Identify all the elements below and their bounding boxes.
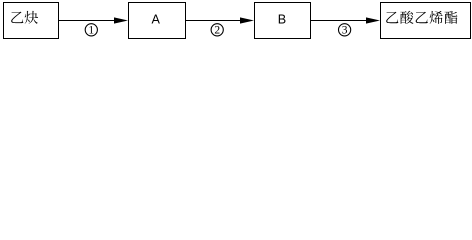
box A	[129, 3, 186, 39]
text 乙酸乙烯酯	[386, 11, 457, 24]
box 乙酸乙烯酯	[381, 3, 471, 39]
arrow 2	[186, 20, 243, 22]
arrow 1	[59, 20, 117, 22]
svg-text:2: 2	[214, 25, 220, 37]
label ②	[211, 24, 223, 37]
text 乙炔	[11, 11, 38, 24]
box 乙炔	[4, 3, 59, 39]
svg-text:3: 3	[342, 25, 348, 37]
box B	[255, 3, 311, 39]
svg-text:1: 1	[88, 25, 94, 37]
arrow 3	[311, 20, 369, 22]
svg-text:B: B	[278, 12, 286, 26]
label ③	[339, 24, 351, 37]
label ①	[85, 24, 97, 37]
svg-text:A: A	[151, 12, 160, 26]
